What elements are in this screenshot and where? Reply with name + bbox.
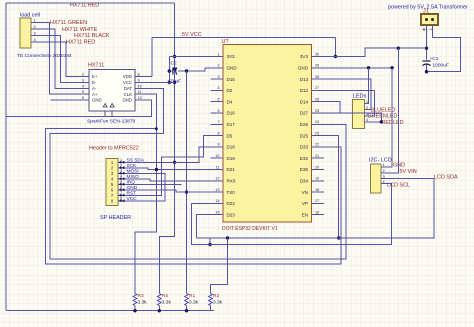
connector J1 power jack (421, 14, 438, 25)
svg-text:VCC: VCC (123, 80, 132, 85)
capacitor C1 1000uF (423, 60, 431, 62)
svg-text:17: 17 (315, 199, 319, 203)
svg-text:R4: R4 (162, 293, 168, 299)
svg-text:D35: D35 (300, 167, 309, 172)
HX711 left pin A- stub (81, 87, 89, 89)
HX711 left pin GND stub (81, 99, 89, 101)
wire HX711 left GND stub run (51, 99, 82, 101)
pin 20 D35 stub (312, 169, 325, 171)
svg-text:DOIT ESP32 DEVKIT V1: DOIT ESP32 DEVKIT V1 (222, 226, 278, 232)
svg-text:1: 1 (383, 163, 385, 167)
svg-text:+C1: +C1 (430, 56, 439, 62)
node R1 on bottom bus (185, 309, 188, 312)
svg-text:3.3k: 3.3k (162, 300, 172, 306)
LEDs pin 2 stub (365, 109, 368, 111)
svg-text:4: 4 (383, 180, 385, 184)
LCD pin 3 stub (381, 178, 385, 180)
svg-text:D18: D18 (227, 145, 236, 150)
svg-text:5: 5 (82, 90, 84, 94)
load cell pin 4 stub (31, 41, 39, 43)
node R4 on bottom bus (158, 309, 161, 312)
svg-text:R1: R1 (189, 293, 195, 299)
capacitor C2 470uF (172, 68, 174, 75)
wire SDA bus to LCD pin3 (197, 179, 434, 238)
pin 30 3V3 stub (312, 56, 325, 58)
svg-text:R3: R3 (138, 293, 144, 299)
svg-text:D23: D23 (227, 212, 236, 217)
svg-text:3.3k: 3.3k (138, 300, 148, 306)
pin 15 D23 stub (211, 214, 223, 216)
wire GND down to LCD pin1 (385, 68, 392, 167)
wire load cell pin1 to HX711 A+ (39, 23, 82, 95)
svg-text:GND: GND (227, 66, 238, 71)
wire D13 to LEDs pin2 BLUELED (324, 79, 371, 110)
wire RST to D5 (125, 136, 211, 196)
SPI pin 8 arrow glyph (119, 199, 125, 202)
svg-text:E-: E- (92, 80, 97, 85)
svg-text:HX711 BLACK: HX711 BLACK (74, 33, 110, 39)
svg-text:GREENLED: GREENLED (368, 114, 398, 120)
wire J1 pin1 down to C1 (426, 25, 428, 60)
svg-text:D19: D19 (227, 156, 236, 161)
node C2 lane at VCC row (168, 81, 171, 84)
pin 21 D32 stub (312, 157, 325, 159)
wire load cell pin3 to HX711 E- (39, 36, 82, 83)
LCD pin 4 stub (381, 183, 385, 185)
op-amp U2 HX711 amplifier body (89, 70, 135, 112)
SPI header pin 5 stub (118, 183, 125, 185)
wire J1 pin2 loop to C1 bottom (427, 37, 461, 71)
svg-text:3: 3 (217, 75, 219, 79)
svg-text:14: 14 (215, 199, 219, 203)
wire C1 bottom lead (426, 65, 428, 72)
svg-text:21: 21 (315, 154, 319, 158)
wire CLK bracket route to D33 (46, 129, 341, 264)
wire MOSI tie to VCC (125, 173, 166, 201)
SPI pin 3 arrow glyph (119, 172, 125, 175)
svg-text:LCD SDA: LCD SDA (434, 175, 458, 181)
load cell pin 2 stub (31, 28, 39, 30)
HX711 bottom pin stub 2 (111, 111, 113, 117)
pin 2 GND stub (211, 67, 223, 69)
HX711 right pin DAT stub (135, 87, 141, 89)
wire D23 down to SDA bus (197, 215, 211, 238)
J1 pin contacts (425, 18, 428, 21)
wire D12 to LEDs pin3 GREENLED (324, 90, 375, 115)
svg-text:E+: E+ (92, 74, 98, 79)
svg-text:5: 5 (217, 98, 219, 102)
svg-text:D15: D15 (227, 77, 236, 82)
svg-text:GND: GND (92, 98, 102, 103)
svg-text:9: 9 (217, 143, 219, 147)
svg-text:D4: D4 (227, 99, 233, 104)
wire R1 riser from C2 node down to R1 (186, 71, 188, 294)
svg-text:30: 30 (315, 52, 319, 56)
svg-text:8: 8 (217, 131, 219, 135)
pin 27 D12 stub (312, 89, 325, 91)
svg-text:10: 10 (215, 154, 219, 158)
svg-text:20: 20 (315, 165, 319, 169)
svg-text:D27: D27 (300, 111, 309, 116)
wire C2 right to ESP32 pin2 GND (187, 68, 211, 71)
svg-text:D26: D26 (300, 122, 309, 127)
wire J1 pin2 down (432, 25, 434, 37)
svg-text:23: 23 (315, 131, 319, 135)
svg-text:6: 6 (82, 96, 84, 100)
wire pin30 row to 5V rail (324, 48, 427, 56)
svg-text:D2: D2 (227, 88, 233, 93)
svg-text:10: 10 (138, 84, 142, 88)
wire SS SDA to D18 (125, 147, 211, 162)
wire MISO to RX0 (125, 179, 211, 181)
connector LEDs (353, 100, 365, 129)
wire R4 bottom lead (158, 306, 160, 311)
wire C2 left lead (169, 70, 173, 72)
pin 18 VN stub (312, 191, 325, 193)
svg-text:HX711 GREEN: HX711 GREEN (50, 20, 87, 26)
svg-text:GND: GND (298, 66, 309, 71)
resistor R2 zigzag (209, 294, 213, 306)
svg-text:2: 2 (383, 169, 385, 173)
svg-text:DAT: DAT (124, 86, 133, 91)
HX711 left pin A+ stub (81, 93, 89, 95)
node C2 right junction (185, 69, 188, 72)
pin 8 D5 stub (211, 135, 223, 137)
wire bottom bus run (6, 310, 214, 312)
pin 11 D21 stub (211, 169, 223, 171)
connector I2C-LCD (371, 164, 382, 193)
svg-text:RX0: RX0 (227, 179, 236, 184)
svg-text:27: 27 (315, 86, 319, 90)
wire 5V rail down to LCD pin2 5V VIN (385, 48, 398, 173)
node SS SDA junction (173, 161, 176, 164)
pin 25 D27 stub (312, 112, 325, 114)
pin 22 D33 stub (312, 146, 325, 148)
svg-text:3: 3 (383, 175, 385, 179)
pin 4 D2 stub (211, 89, 223, 91)
SPI header pin 8 stub (118, 200, 125, 202)
wire main vertical lane from top jog to R4 (159, 3, 174, 294)
LEDs pin 4 stub (365, 121, 368, 123)
wire HX711 VDD to 5V VCC (141, 76, 152, 78)
svg-text:12: 12 (138, 96, 142, 100)
svg-text:R2: R2 (213, 293, 219, 299)
svg-text:29: 29 (315, 64, 319, 68)
svg-text:4: 4 (217, 86, 219, 90)
svg-text:6: 6 (217, 109, 219, 113)
wire HX711 RED top run (6, 2, 175, 4)
HX711 right pin GND stub (135, 99, 141, 101)
SPI header pin 1 stub (118, 161, 125, 163)
svg-text:D14: D14 (300, 99, 309, 104)
svg-text:HX711 WHITE: HX711 WHITE (62, 27, 98, 33)
svg-text:18: 18 (315, 188, 319, 192)
svg-text:D22: D22 (227, 201, 236, 206)
node 5V at C1 top (425, 47, 428, 50)
svg-text:HX711 RED: HX711 RED (66, 40, 95, 46)
SPI header pin 2 stub (118, 167, 125, 169)
svg-text:D32: D32 (300, 156, 309, 161)
resistor R3 zigzag (133, 294, 137, 306)
node 3V3 at ESP32 pin1 row (173, 55, 176, 58)
wire pin29 GND row (324, 67, 392, 69)
svg-text:D25: D25 (300, 133, 309, 138)
svg-text:A+: A+ (92, 92, 98, 97)
wire link between buses (209, 238, 211, 245)
pin 23 D25 stub (312, 135, 325, 137)
pin 26 D14 stub (312, 101, 325, 103)
svg-text:D13: D13 (300, 77, 309, 82)
svg-text:3V3: 3V3 (300, 54, 309, 59)
pin 3 D15 stub (211, 78, 223, 80)
svg-text:15: 15 (215, 211, 219, 215)
svg-text:4: 4 (82, 84, 84, 88)
wire load cell pin4 to HX711 E+ (39, 42, 82, 77)
svg-text:3: 3 (82, 78, 84, 82)
wire R1 bottom lead (186, 306, 188, 311)
node pin30 3V3 junction (334, 55, 337, 58)
svg-text:5V VIN: 5V VIN (400, 169, 417, 175)
wire D25 down to SDA bus (324, 136, 339, 238)
HX711 bottom pin stub 1 (104, 111, 106, 117)
node D25 SDA junction (337, 236, 340, 239)
pin 7 D17 stub (211, 123, 223, 125)
node REDLED junction (380, 120, 383, 123)
svg-text:2: 2 (217, 64, 219, 68)
svg-text:3V3: 3V3 (227, 54, 236, 59)
pin 16 EN stub (312, 214, 325, 216)
svg-text:1: 1 (217, 52, 219, 56)
op-amp U? DOIT ESP32 DEVKIT V1 module body (223, 45, 312, 223)
svg-text:HX711: HX711 (88, 63, 104, 69)
svg-text:25: 25 (315, 109, 319, 113)
wire HX711 GND to left rail (6, 100, 152, 116)
svg-text:VP: VP (302, 201, 308, 206)
pin 12 RX0 stub (211, 180, 223, 182)
SPI header pin 7 stub (118, 194, 125, 196)
LCD pin 2 stub (381, 172, 385, 174)
node 5V rail to LCD VIN (397, 47, 400, 50)
SPI header pin 4 stub (118, 178, 125, 180)
pin 17 VP stub (312, 202, 325, 204)
wire 3V3 row to ESP32 pin1 (169, 56, 210, 58)
svg-text:19: 19 (315, 177, 319, 181)
SPI pin 4 arrow glyph (119, 177, 125, 180)
wire HX711 CLK lane down to R3 (135, 94, 156, 293)
wire D22 to LCD pin4 SCL bus (191, 184, 391, 245)
LEDs pin 3 stub (365, 115, 368, 117)
svg-text:12: 12 (215, 177, 219, 181)
LEDs pin 1 stub (365, 103, 368, 105)
wire C2 branch lane from pin1 row (168, 57, 170, 83)
svg-text:TX0: TX0 (227, 190, 236, 195)
svg-text:LEDs: LEDs (353, 94, 367, 100)
SPI pin 5 arrow glyph (119, 183, 125, 186)
wire D14 tie to D27 (324, 102, 340, 113)
svg-text:EN: EN (302, 212, 308, 217)
wire D27 to LEDs pin4 REDLED (340, 113, 381, 122)
HX711 right pin VCC stub (135, 81, 141, 83)
svg-text:2: 2 (82, 73, 84, 77)
svg-text:C2: C2 (171, 61, 177, 67)
HX711 internal triangle marks (103, 104, 114, 108)
wire C2 right lead (178, 70, 187, 72)
svg-text:13: 13 (215, 188, 219, 192)
SPI pin 7 arrow glyph (119, 194, 125, 197)
wire SCK to D21 (125, 168, 211, 170)
resistor R1 zigzag (185, 294, 189, 306)
pin 29 GND stub (312, 67, 325, 69)
load cell pin 1 stub (31, 22, 39, 24)
wire 5V VCC horizontal (152, 37, 336, 39)
node C1 bottom junction (425, 70, 428, 73)
svg-text:GND: GND (122, 98, 132, 103)
svg-text:I2C- LCD: I2C- LCD (369, 158, 392, 164)
connector P? SPI header to MFRC522 (106, 159, 118, 206)
svg-text:3.3k: 3.3k (213, 300, 223, 306)
pin 6 D16 stub (211, 112, 223, 114)
svg-text:D12: D12 (300, 88, 309, 93)
node R2 riser junction (226, 236, 229, 239)
svg-text:3.3k: 3.3k (189, 300, 199, 306)
pin 19 D34 stub (312, 180, 325, 182)
node link junction on SCL bus (208, 243, 211, 246)
SPI header pin 3 stub (118, 172, 125, 174)
pin 24 D26 stub (312, 123, 325, 125)
pin 5 D4 stub (211, 101, 223, 103)
svg-text:16: 16 (315, 211, 319, 215)
svg-text:28: 28 (315, 75, 319, 79)
svg-text:TE Connectivity 2020344: TE Connectivity 2020344 (17, 53, 72, 59)
svg-text:26: 26 (315, 98, 319, 102)
wire IRQ run (125, 183, 182, 185)
svg-text:U?: U? (222, 39, 229, 45)
wire R2 bottom lead (210, 306, 212, 311)
pin 28 D13 stub (312, 78, 325, 80)
node C2 left lead junction (168, 69, 171, 72)
node CLK bracket tee (155, 127, 158, 130)
svg-text:VDD: VDD (123, 74, 132, 79)
wire left vertical run (5, 3, 7, 311)
wire 5V VCC down to HX711 VDD (151, 38, 153, 77)
J1 pin number marks (423, 28, 433, 31)
HX711 left pin E- stub (81, 81, 89, 83)
svg-text:VN: VN (302, 190, 308, 195)
pin 10 D19 stub (211, 157, 223, 159)
wire load cell pin2 to HX711 A- (39, 29, 82, 88)
svg-text:SP HEADER: SP HEADER (100, 215, 131, 221)
svg-text:9: 9 (138, 78, 140, 82)
svg-text:powered by 5V, 2.5A Transforme: powered by 5V, 2.5A Transformer (388, 5, 468, 11)
svg-text:8: 8 (138, 73, 140, 77)
node GND to LEDs pin1 (367, 66, 370, 69)
wire GND down to LEDs pin1 (367, 68, 370, 104)
wire R3 bottom lead (134, 306, 136, 311)
LCD pin 1 stub (381, 166, 385, 168)
wire HX711 DAT long route to D26 (50, 88, 346, 259)
resistor R4 zigzag (157, 294, 161, 306)
svg-text:SparkFun SEN-13879: SparkFun SEN-13879 (87, 119, 136, 125)
svg-text:D16: D16 (227, 111, 236, 116)
svg-text:D17: D17 (227, 122, 236, 127)
connector load cell (TE Connectivity 2020344) (20, 18, 31, 48)
pin 1 3V3 stub (211, 56, 223, 58)
svg-text:D33: D33 (300, 145, 309, 150)
SPI pin 6 arrow glyph (119, 188, 125, 191)
SPI pin 1 arrow glyph (119, 161, 125, 164)
svg-text:CLK: CLK (124, 92, 132, 97)
svg-text:11: 11 (216, 165, 220, 169)
pin 9 D18 stub (211, 146, 223, 148)
svg-text:22: 22 (315, 143, 319, 147)
node C2 left junction (173, 67, 176, 70)
node HX711 VCC junction (173, 81, 176, 84)
HX711 left pin E+ stub (81, 76, 89, 78)
wire R2 riser jog to SDA bus (211, 238, 228, 294)
node R3 on bottom bus (133, 309, 136, 312)
node SCK lane junction (155, 168, 158, 171)
svg-text:7: 7 (217, 120, 219, 124)
wire SPI GND to TX0 (125, 190, 211, 192)
svg-text:11: 11 (138, 90, 142, 94)
svg-text:A-: A- (92, 86, 97, 91)
node R1 riser at TX0 row (185, 190, 188, 193)
svg-text:24: 24 (315, 120, 319, 124)
node GND to LCD pin1 (390, 66, 393, 69)
SPI header pin 6 stub (118, 189, 125, 191)
svg-text:D34: D34 (300, 179, 309, 184)
pin 14 D22 stub (211, 202, 223, 204)
svg-text:load cell: load cell (20, 13, 40, 19)
svg-text:1000uF: 1000uF (433, 63, 449, 69)
svg-text:D21: D21 (227, 167, 236, 172)
svg-text:Header to MFRC522: Header to MFRC522 (89, 146, 139, 152)
wire 5V VCC drop to pin30 row (334, 38, 336, 57)
pin 13 TX0 stub (211, 191, 223, 193)
SPI pin 2 arrow glyph (119, 166, 125, 169)
wire HX711 VCC to C2 vertical (141, 81, 175, 83)
svg-text:GND: GND (393, 163, 405, 169)
HX711 right pin VDD stub (135, 76, 141, 78)
svg-text:D5: D5 (227, 133, 233, 138)
load cell pin 3 stub (31, 35, 39, 37)
HX711 right pin CLK stub (135, 93, 141, 95)
